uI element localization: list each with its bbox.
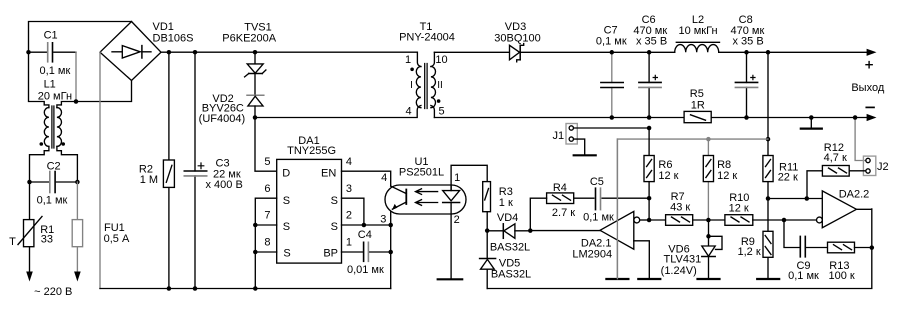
svg-text:8: 8 <box>264 237 270 249</box>
resistor R3 <box>483 182 513 212</box>
svg-text:TLV431: TLV431 <box>664 253 702 265</box>
svg-text:3: 3 <box>380 213 386 225</box>
connector J2 <box>863 156 888 175</box>
ground U1 pin2 <box>438 278 463 280</box>
capacitor C8 <box>731 14 765 118</box>
svg-text:4: 4 <box>405 106 411 118</box>
svg-text:BAS32L: BAS32L <box>491 268 531 280</box>
svg-text:R8: R8 <box>717 159 731 171</box>
node R2 top <box>167 50 172 55</box>
ground J1 pin2 <box>574 154 596 156</box>
node C3 bottom <box>193 286 198 291</box>
AC input arrow right <box>74 272 81 282</box>
node C4 right <box>388 250 393 255</box>
node C8 bottom <box>744 115 749 120</box>
capacitor C9 <box>784 220 828 282</box>
svg-text:R4: R4 <box>553 182 567 194</box>
node R8 top grey <box>706 137 711 142</box>
wire emitter down to ground rail <box>390 209 392 289</box>
svg-text:1,2 к: 1,2 к <box>738 246 761 258</box>
resistor R7 <box>649 191 725 226</box>
svg-text:DA2.2: DA2.2 <box>839 189 870 201</box>
svg-text:S: S <box>283 221 290 233</box>
svg-text:EN: EN <box>321 168 336 180</box>
node drain <box>253 115 258 120</box>
diode VD4 <box>487 212 530 253</box>
svg-text:BP: BP <box>323 248 338 260</box>
svg-text:C2: C2 <box>47 160 61 172</box>
optocoupler U1 PS2501L <box>380 156 466 226</box>
svg-text:x 35 В: x 35 В <box>636 36 667 48</box>
svg-text:Выход: Выход <box>851 82 884 94</box>
svg-text:20 мГн: 20 мГн <box>38 90 72 102</box>
wire secondary return line <box>434 117 867 119</box>
output minus arrow <box>867 114 877 121</box>
wire R3 bottom <box>486 212 488 231</box>
node R10 right / C9 tap <box>782 218 787 223</box>
capacitor C3 <box>184 52 243 288</box>
wire R11/R9 node to DA2.2 <box>768 198 822 200</box>
svg-text:22 к: 22 к <box>778 172 798 184</box>
svg-text:I: I <box>410 80 413 91</box>
TVS diode TVS1 <box>222 21 276 95</box>
node ground stem <box>809 115 814 120</box>
svg-text:II: II <box>437 80 443 91</box>
capacitor C1 <box>29 29 77 77</box>
resistor R10 <box>725 192 817 225</box>
ground common net <box>606 278 628 280</box>
node R11 top <box>766 50 771 55</box>
node R3/VD4/VD5 <box>485 228 490 233</box>
svg-text:TVS1: TVS1 <box>244 21 272 33</box>
svg-text:1R: 1R <box>691 100 705 112</box>
AC input arrow left <box>26 272 33 282</box>
resistor R6 <box>644 128 679 220</box>
svg-text:10: 10 <box>435 54 447 66</box>
wire top-left loop <box>29 22 132 53</box>
node R6 bottom / C5 <box>647 196 652 201</box>
resistor R8 <box>703 139 737 220</box>
IC DA1 TNY255G <box>264 135 352 263</box>
svg-text:DB106S: DB106S <box>153 32 194 44</box>
svg-text:30BQ100: 30BQ100 <box>494 33 540 45</box>
svg-text:5: 5 <box>264 156 270 168</box>
resistor R9 <box>738 199 773 279</box>
svg-text:12 к: 12 к <box>729 202 749 214</box>
svg-text:5: 5 <box>438 106 444 118</box>
node R2 bottom <box>167 286 172 291</box>
wire output+ rail <box>434 51 867 53</box>
node R7/R8/R10 <box>706 218 711 223</box>
node R12 drop <box>805 196 810 201</box>
wire T1 pin10 to output rail <box>431 52 435 66</box>
svg-text:0,1 мк: 0,1 мк <box>40 65 71 77</box>
svg-text:x 35 В: x 35 В <box>733 36 764 48</box>
node C1 right junction <box>74 99 79 104</box>
node R11 grey line <box>766 137 771 142</box>
node J1 pin1 <box>647 126 652 131</box>
wire J2 feed (grey) <box>855 118 866 161</box>
shunt reference VD6 TLV431 <box>661 220 722 279</box>
svg-text:x 400 В: x 400 В <box>206 179 243 191</box>
op-amp DA2.1 <box>572 139 649 279</box>
svg-text:10 мкГн: 10 мкГн <box>678 25 717 37</box>
resistor R5 <box>684 88 711 123</box>
svg-text:TNY255G: TNY255G <box>287 145 336 157</box>
ground output minus <box>810 118 812 129</box>
svg-text:0,1 мк: 0,1 мк <box>788 270 819 282</box>
capacitor C2 <box>30 160 78 206</box>
svg-text:12 к: 12 к <box>717 170 737 182</box>
svg-text:100 к: 100 к <box>828 270 854 282</box>
wire primary ground rail <box>100 288 391 290</box>
wire pin2 to emitter line <box>342 224 391 226</box>
node emitter line <box>388 223 393 228</box>
svg-text:4,7 к: 4,7 к <box>824 152 847 164</box>
fuse FU1 <box>72 182 130 272</box>
svg-text:C5: C5 <box>590 176 604 188</box>
diode VD2 <box>199 93 264 125</box>
svg-text:0,1 мк: 0,1 мк <box>596 36 627 48</box>
node pin8 <box>253 250 257 255</box>
svg-text:2: 2 <box>346 210 352 222</box>
connector J1 <box>553 124 650 155</box>
svg-text:S: S <box>331 221 338 233</box>
node C8 top <box>744 50 749 55</box>
node pin7 <box>253 223 257 228</box>
diode VD3 <box>494 21 540 62</box>
node pin2/pin3 <box>362 223 367 228</box>
svg-text:BAS32L: BAS32L <box>490 241 530 253</box>
svg-text:2: 2 <box>454 214 460 226</box>
svg-text:3: 3 <box>346 183 352 195</box>
svg-text:VD4: VD4 <box>497 212 518 224</box>
wire U1 pin2 to ground symbol <box>450 214 452 279</box>
transformer T1 <box>399 21 455 118</box>
svg-text:(1.24V): (1.24V) <box>661 265 697 277</box>
wire HV+ rail <box>161 52 421 66</box>
wire C1 right drop (grey) <box>75 52 77 101</box>
capacitor C5 <box>574 176 649 223</box>
node TVS1 top <box>253 50 258 55</box>
svg-text:C1: C1 <box>44 29 58 41</box>
node VD6 ref <box>706 234 711 239</box>
node C3 top <box>193 50 198 55</box>
svg-text:43 к: 43 к <box>670 201 690 213</box>
svg-text:S: S <box>283 195 290 207</box>
wire DA1 source pins <box>255 198 276 288</box>
svg-text:S: S <box>283 248 290 260</box>
wire drain to DA1 pin5 <box>255 118 277 172</box>
svg-text:C4: C4 <box>358 229 372 241</box>
resistor R13 <box>828 242 872 282</box>
svg-text:1: 1 <box>454 172 460 184</box>
wire L1 bottom-left <box>30 146 49 219</box>
ground R9 <box>757 278 779 280</box>
wire L1 bottom-right <box>57 146 78 182</box>
wire DA2.2 output bus <box>487 209 872 289</box>
resistor R2 <box>139 52 175 288</box>
svg-text:~ 220 В: ~ 220 В <box>34 286 72 298</box>
wire C1 left to L1 <box>29 52 49 107</box>
svg-text:VD3: VD3 <box>505 21 526 33</box>
svg-text:4: 4 <box>346 156 352 168</box>
wire T1 pin5 down <box>431 106 435 118</box>
svg-text:1 к: 1 к <box>499 197 513 209</box>
svg-text:P6KE200A: P6KE200A <box>222 33 276 45</box>
node C1 left <box>26 50 31 55</box>
wire L1 right to bridge bottom <box>57 81 132 108</box>
svg-text:S: S <box>331 195 338 207</box>
resistor R4 <box>530 182 575 231</box>
node R9 top <box>766 196 771 201</box>
diode VD5 <box>480 231 532 289</box>
svg-text:LM2904: LM2904 <box>572 248 612 260</box>
ground VD6 <box>698 278 720 280</box>
node VD4/R4 <box>528 228 533 233</box>
bridge rectifier VD1 <box>100 21 193 81</box>
wire R1 to arrow <box>29 247 31 272</box>
svg-text:1 M: 1 M <box>140 174 158 186</box>
capacitor C4 <box>342 229 391 276</box>
svg-text:0,1 мк: 0,1 мк <box>37 195 68 207</box>
svg-text:0,5 А: 0,5 А <box>104 233 130 245</box>
node C6 bottom <box>647 115 652 120</box>
node R6 / R7 <box>647 218 652 223</box>
wire bridge minus drop (grey) <box>99 52 101 288</box>
svg-text:D: D <box>282 168 290 180</box>
wire VD4 to DA2.1 output <box>530 230 600 232</box>
node C2 left <box>27 180 32 185</box>
svg-text:(UF4004): (UF4004) <box>199 113 245 125</box>
svg-text:R6: R6 <box>658 159 672 171</box>
op-amp DA2.2 <box>817 189 872 228</box>
svg-text:4: 4 <box>381 172 387 184</box>
svg-text:0,1 мк: 0,1 мк <box>583 211 614 223</box>
svg-text:PS2501L: PS2501L <box>399 167 444 179</box>
inductor L1 common-mode choke <box>38 79 72 148</box>
wire EN to opto <box>342 171 391 186</box>
node C7 bottom <box>610 115 615 120</box>
node C2 right <box>75 180 80 185</box>
svg-text:J2: J2 <box>877 161 889 173</box>
svg-text:2.7 к: 2.7 к <box>552 207 575 219</box>
svg-text:1: 1 <box>346 237 352 249</box>
svg-text:33: 33 <box>41 233 53 245</box>
capacitor C7 <box>596 25 627 118</box>
svg-text:12 к: 12 к <box>658 170 678 182</box>
svg-text:T: T <box>9 236 16 248</box>
svg-text:VD1: VD1 <box>153 21 174 33</box>
label output <box>866 62 872 68</box>
node J2 stem <box>853 115 858 120</box>
wire common net (grey) <box>617 139 768 279</box>
wire drain node to T1 pin4 <box>255 106 421 118</box>
resistor R11 <box>763 52 798 198</box>
svg-text:J1: J1 <box>553 130 565 142</box>
thermistor R1 <box>9 217 54 249</box>
output plus arrow <box>867 49 877 56</box>
inductor L2 <box>675 14 720 52</box>
svg-text:L1: L1 <box>44 79 56 91</box>
node C6 top <box>647 50 652 55</box>
svg-text:R5: R5 <box>690 88 704 100</box>
node C7 top <box>610 50 615 55</box>
wire U1 pin1 to R3 <box>451 165 487 190</box>
capacitor C6 <box>633 14 667 118</box>
ground DA2.1 +input <box>638 278 660 280</box>
svg-text:6: 6 <box>264 183 270 195</box>
svg-text:7: 7 <box>264 210 270 222</box>
svg-text:PNY-24004: PNY-24004 <box>399 32 455 44</box>
node source rail <box>253 286 257 291</box>
wire pin3 to pin2 <box>342 198 364 225</box>
resistor R12 <box>807 142 866 199</box>
svg-text:1: 1 <box>405 54 411 66</box>
svg-text:0,01 мк: 0,01 мк <box>347 264 384 276</box>
node DA2.2 feedback <box>870 245 875 250</box>
